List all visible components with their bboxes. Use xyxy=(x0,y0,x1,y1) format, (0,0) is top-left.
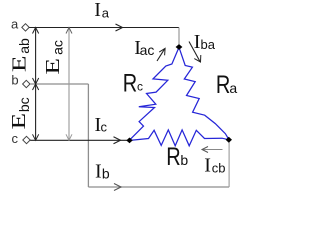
arrow Ic head xyxy=(114,137,121,144)
wire: b vertical down xyxy=(87,84,89,187)
svg-text:ba: ba xyxy=(201,37,216,52)
Eab top arrowhead (up) xyxy=(33,28,39,34)
svg-text:c: c xyxy=(137,79,143,93)
svg-text:cb: cb xyxy=(212,160,226,175)
svg-text:ac: ac xyxy=(50,40,66,55)
arrow Icb (gray, pointing left) xyxy=(202,149,223,151)
svg-text:R: R xyxy=(166,143,180,171)
resistor Rb zigzag (bottom, blue) xyxy=(130,130,229,146)
label Ebc (rotated) xyxy=(8,113,30,130)
arrow Iac xyxy=(157,49,165,61)
svg-text:E: E xyxy=(8,113,30,130)
svg-text:E: E xyxy=(9,55,31,72)
svg-text:b: b xyxy=(180,152,188,168)
svg-text:I: I xyxy=(94,0,101,21)
svg-text:ab: ab xyxy=(16,38,32,54)
wire: c-line horizontal xyxy=(30,139,127,141)
svg-text:I: I xyxy=(204,155,211,177)
wire: drop from a-line to top vertex xyxy=(178,28,180,45)
svg-text:b: b xyxy=(11,72,18,87)
wire: bottom Ib line xyxy=(88,186,229,188)
wire: b-line horizontal (gray) xyxy=(30,83,88,85)
svg-text:c: c xyxy=(12,131,19,146)
svg-text:a: a xyxy=(229,80,237,96)
svg-text:ac: ac xyxy=(140,42,155,58)
arrow Iba xyxy=(189,42,200,62)
wire: a-line horizontal xyxy=(29,27,179,29)
svg-text:a: a xyxy=(11,16,19,31)
svg-text:a: a xyxy=(102,5,110,20)
svg-text:bc: bc xyxy=(16,97,32,112)
label Eab (rotated) xyxy=(9,55,31,72)
svg-text:R: R xyxy=(216,71,230,99)
X arrowheads at b-line xyxy=(33,78,39,90)
svg-text:E: E xyxy=(42,58,64,75)
voltage arrow Eac line (gray) xyxy=(68,28,70,141)
terminal diamond c xyxy=(23,136,30,143)
voltage arrow Eab/Ebc line xyxy=(35,28,37,141)
resistor Ra zigzag (right side, blue) xyxy=(179,47,229,139)
node dot: bottom-right vertex xyxy=(226,137,232,143)
arrow Ib head xyxy=(114,184,121,191)
svg-text:b: b xyxy=(102,165,110,181)
arrow Ia head xyxy=(116,24,123,31)
Eac top arrowhead xyxy=(66,28,72,34)
Eac bottom arrowhead xyxy=(66,134,72,140)
resistor Rc zigzag (left side, blue) xyxy=(130,47,179,140)
label Eac (rotated) xyxy=(42,58,64,75)
Ebc bottom arrowhead (down) xyxy=(33,134,39,140)
svg-text:I: I xyxy=(95,161,102,183)
node dot: bottom-left vertex xyxy=(126,138,132,144)
terminal diamond b xyxy=(23,80,30,87)
terminal diamond a xyxy=(22,24,29,31)
svg-text:R: R xyxy=(123,69,137,97)
svg-text:I: I xyxy=(194,31,201,53)
wire: right vertical up to vertex xyxy=(228,141,230,187)
node dot: top vertex xyxy=(176,44,183,50)
svg-text:c: c xyxy=(101,120,108,135)
